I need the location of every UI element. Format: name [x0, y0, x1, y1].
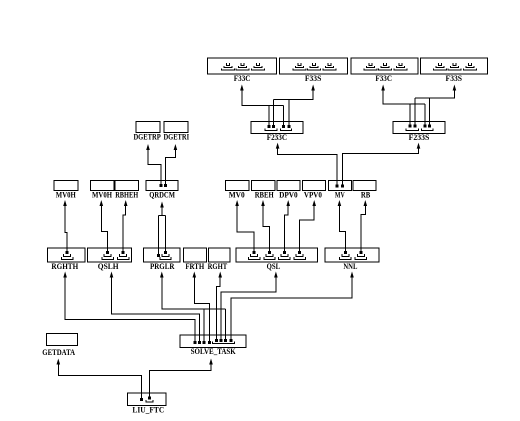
wire LIU_FTC dot1 to GETDATA: [58, 364, 141, 398]
module box VPV0: [303, 181, 326, 191]
svg-text:NNL: NNL: [343, 262, 357, 271]
svg-text:MV0: MV0: [229, 191, 245, 200]
arrowhead into QSL: [274, 272, 278, 278]
svg-text:DGETRI: DGETRI: [163, 133, 189, 142]
module box SOLVE_TASK: [180, 335, 246, 348]
svg-text:QSLH: QSLH: [98, 262, 120, 271]
arrowhead into F33S (top-right): [453, 85, 457, 91]
wire QSL dot3 to DPV0: [284, 206, 288, 252]
svg-text:RBHEH: RBHEH: [115, 191, 139, 200]
wire RGHTH to MV0H (first): [65, 206, 67, 252]
arrowhead into F233C: [276, 143, 280, 149]
arrowhead into F233S: [417, 143, 421, 149]
wire PRGLR pair merged to QRDCM: [158, 207, 165, 254]
wire QSL dot4 to VPV0: [300, 206, 315, 252]
arrowhead into RB: [364, 200, 368, 206]
svg-text:F33C: F33C: [234, 74, 251, 83]
wire QRDCM dot2 to DGETRI: [165, 150, 175, 184]
module box RBHEH: [115, 181, 139, 191]
svg-text:MV0H: MV0H: [56, 191, 77, 200]
module box MV0: [226, 181, 250, 191]
module box LIU_FTC: [128, 393, 167, 406]
wire SOLVE_TASK dots3+7 to PRGLR: [162, 277, 226, 341]
wire QSL dot2 to RBEH: [263, 206, 270, 252]
wire LIU_FTC dot2 to SOLVE_TASK: [150, 364, 211, 397]
svg-text:F33C: F33C: [375, 74, 392, 83]
wire SOLVE_TASK dot5 to RGHT: [217, 277, 221, 339]
svg-text:PRGLR: PRGLR: [150, 262, 175, 271]
arrowhead into GETDATA: [57, 359, 61, 365]
wire F233S dots to F33S (top-right): [415, 90, 455, 125]
wire QSL dot1 to MV0: [237, 206, 254, 252]
module box DGETRP: [136, 122, 160, 133]
arrowhead into F33C (top third): [381, 85, 385, 91]
arrowhead into MV0H (second): [100, 200, 104, 206]
module box DPV0: [277, 181, 300, 191]
arrowhead into DGETRP: [146, 144, 150, 150]
arrowhead into FRTH: [193, 272, 197, 278]
module box QSL: [236, 248, 318, 262]
arrowhead into RBEH: [261, 200, 265, 206]
wire SOLVE_TASK dot4 to FRTH: [194, 277, 209, 341]
module box MV0H (first): [54, 181, 78, 191]
wire QSLH dot2 to RBHEH: [123, 206, 126, 252]
wire MV dot1 to F233C: [278, 148, 337, 185]
module box DGETRI: [164, 122, 188, 133]
module box QSLH: [88, 248, 132, 262]
wire SOLVE_TASK dot1 to RGHTH: [65, 277, 195, 341]
wire NNL dot2 to RB: [361, 206, 365, 252]
arrowhead into QSLH: [110, 272, 114, 278]
module box NNL: [325, 248, 379, 262]
wire QRDCM dot1 to DGETRP: [148, 150, 161, 184]
module box F33C (top-left): [208, 58, 277, 74]
svg-text:RBEH: RBEH: [255, 191, 275, 200]
module box F33S (top-right): [421, 58, 488, 74]
arrowhead into DPV0: [286, 200, 290, 206]
module box RGHTH: [48, 248, 86, 262]
arrowhead into MV: [338, 200, 342, 206]
arrowhead into RBHEH: [124, 200, 128, 206]
module box FRTH: [184, 248, 207, 262]
wire NNL dot1 to MV: [339, 206, 345, 252]
module box PRGLR: [144, 248, 181, 262]
svg-text:F33S: F33S: [305, 74, 322, 83]
svg-text:LIU_FTC: LIU_FTC: [132, 406, 164, 415]
arrowhead into NNL: [350, 272, 354, 278]
wire SOLVE_TASK dot8 to NNL: [231, 277, 352, 339]
module box RBEH: [252, 181, 276, 191]
svg-text:RGHT: RGHT: [208, 262, 228, 271]
module box F233C: [251, 122, 303, 134]
arrowhead into F33C (top-left): [240, 85, 244, 91]
wire F233C dots to F33C (top-left): [242, 90, 284, 126]
svg-text:MV0H: MV0H: [92, 191, 113, 200]
arrowhead into RGHTH: [63, 272, 67, 278]
module box RGHT: [209, 248, 231, 262]
svg-text:F233C: F233C: [267, 133, 288, 142]
svg-text:SOLVE_TASK: SOLVE_TASK: [191, 347, 237, 356]
module box GETDATA: [47, 334, 78, 346]
wire F233S dots to F33C (top third): [383, 90, 425, 125]
arrowhead into VPV0: [312, 200, 316, 206]
svg-text:F233S: F233S: [409, 133, 430, 142]
module box MV0H (second): [91, 181, 115, 191]
svg-text:RGHTH: RGHTH: [51, 262, 78, 271]
wire MV dot2 to F233S: [343, 148, 419, 185]
svg-text:DPV0: DPV0: [279, 191, 298, 200]
module box QRDCM: [146, 181, 178, 191]
svg-text:RB: RB: [361, 191, 371, 200]
module box RB: [353, 181, 376, 191]
arrowhead into F33S (top second): [311, 85, 315, 91]
svg-text:VPV0: VPV0: [304, 191, 322, 200]
svg-text:GETDATA: GETDATA: [42, 348, 75, 357]
module box F33S (top, second): [280, 58, 348, 74]
arrowhead into MV0: [235, 200, 239, 206]
arrowhead into DGETRI: [174, 144, 178, 150]
wire QSLH dot1 to MV0H (second): [101, 206, 107, 252]
arrowhead into RGHT: [218, 272, 222, 278]
wire SOLVE_TASK dot2 to QSLH: [112, 277, 200, 341]
svg-text:QRDCM: QRDCM: [149, 191, 175, 200]
arrowhead into QRDCM: [160, 202, 164, 208]
wire SOLVE_TASK dot6 to QSL: [221, 277, 276, 339]
arrowhead into MV0H (first): [63, 200, 67, 206]
arrowhead into SOLVE_TASK: [209, 359, 213, 365]
svg-text:MV: MV: [335, 191, 345, 200]
module box F233S: [393, 122, 445, 134]
arrowhead into PRGLR: [160, 272, 164, 278]
svg-text:QSL: QSL: [267, 262, 281, 271]
svg-text:FRTH: FRTH: [185, 262, 205, 271]
module box F33C (top, third): [351, 58, 418, 74]
svg-text:DGETRP: DGETRP: [133, 133, 160, 142]
module box MV: [329, 181, 352, 191]
wire F233C dots to F33S (top second): [274, 90, 314, 126]
svg-text:F33S: F33S: [446, 74, 463, 83]
